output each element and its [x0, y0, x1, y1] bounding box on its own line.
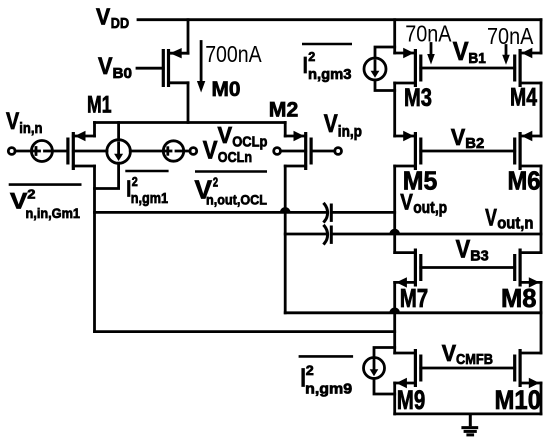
noise current source In,gm3 (circle with down arrow) — [364, 58, 386, 80]
svg-text:n,gm9: n,gm9 — [305, 381, 352, 398]
transistor M9 (NMOS mirrored) — [395, 349, 421, 388]
svg-text:2: 2 — [213, 174, 218, 189]
terminal VOCLn — [190, 148, 197, 155]
noise voltage source VOCL (circle with +/-) — [163, 141, 190, 161]
wire C1 to Vout,p — [331, 211, 394, 214]
svg-text:out,n: out,n — [497, 215, 533, 233]
svg-text:in,p: in,p — [338, 123, 362, 140]
wire M7 source stem to M9 drain — [393, 282, 396, 353]
noise label In,gm9 with overline — [299, 356, 354, 397]
wire VB0 to M0 gate — [137, 67, 163, 70]
svg-text:V: V — [203, 137, 218, 165]
svg-text:2: 2 — [27, 187, 35, 202]
svg-text:70nA: 70nA — [487, 23, 534, 49]
arrow 70nA right — [502, 46, 510, 65]
wire VB1 gate line M3-M4 — [421, 67, 515, 70]
transistor M4 (PMOS) — [515, 48, 541, 87]
node VOCLp label — [218, 122, 268, 151]
svg-text:V: V — [324, 110, 338, 138]
node VDD label — [96, 4, 129, 33]
wire M10 source stem — [540, 383, 543, 414]
wire Vout,n vertical (M6 drain to M8 drain) — [540, 166, 543, 253]
noise label In,gm3 with overline — [302, 44, 352, 83]
svg-text:M7: M7 — [400, 283, 429, 313]
svg-text:2: 2 — [308, 49, 315, 64]
wire VB3 gate line M7-M8 — [421, 266, 515, 269]
crossover hop at M2 drain — [281, 208, 290, 212]
svg-text:V: V — [442, 340, 457, 366]
wire bottom ground rail — [395, 412, 541, 415]
terminal to M2 bulk — [274, 148, 281, 155]
noise label In,gm1 with overline — [125, 171, 168, 207]
svg-text:M8: M8 — [501, 283, 537, 313]
wire VCMFB gate line M9-M10 — [421, 367, 515, 370]
wire In,gm1 bottom stem to M1 drain — [95, 163, 119, 188]
svg-text:M6: M6 — [508, 166, 541, 196]
wire compensation cap 2 left segment (M2 drain to C2) — [285, 233, 327, 236]
wire In,gm9 top stem — [374, 348, 395, 358]
terminal Vin,n — [8, 148, 15, 155]
node VB0 label — [98, 53, 132, 82]
svg-text:V: V — [96, 4, 111, 30]
svg-text:70nA: 70nA — [405, 21, 452, 47]
terminal Vin,p — [335, 148, 342, 155]
transistor M5 (PMOS mirrored) — [395, 131, 421, 170]
wire M0 drain to tail rail — [187, 83, 190, 123]
wire M9 source stem — [393, 383, 396, 414]
svg-text:out,p: out,p — [413, 199, 447, 217]
arrow 700nA current — [197, 42, 205, 93]
svg-text:B3: B3 — [470, 248, 489, 265]
noise current source In,gm1 (circle with down arrow) — [107, 140, 131, 164]
svg-text:OCLn: OCLn — [218, 149, 252, 166]
wire In,gm1 to OCL source — [130, 150, 163, 153]
transistor M7 (NMOS mirrored) — [395, 249, 421, 288]
transistor M0 (PMOS) — [163, 48, 188, 87]
svg-text:700nA: 700nA — [205, 41, 262, 67]
wire M2 drain to right folding node — [285, 311, 541, 314]
wire Vout,p vertical (M5 drain to M7 drain) — [393, 166, 396, 253]
wire VB2 gate line M5-M6 — [421, 150, 515, 153]
noise label Vn,in,Gm1 with overline — [9, 185, 82, 221]
transistor M6 (PMOS) — [515, 131, 541, 170]
svg-text:2: 2 — [306, 362, 314, 378]
wire Vin,n terminal to noise source — [15, 150, 31, 153]
wire C2 to Vout,n (net Vout,n) — [331, 233, 541, 236]
svg-text:n,out,OCL: n,out,OCL — [206, 192, 267, 208]
transistor M3 (PMOS mirrored) — [395, 48, 421, 87]
wire In,gm9 bottom stem — [374, 379, 395, 395]
svg-text:B0: B0 — [113, 65, 133, 82]
svg-text:2: 2 — [132, 174, 138, 189]
wire M1 drain to left folding node — [95, 330, 395, 333]
wire In,gm1 top stem to tail rail — [117, 123, 120, 140]
node Vin,n label — [6, 108, 43, 137]
svg-text:M3: M3 — [404, 84, 432, 112]
wire M1 drain vertical — [93, 166, 96, 332]
svg-text:OCLp: OCLp — [232, 135, 267, 151]
svg-text:n,in,Gm1: n,in,Gm1 — [26, 205, 81, 221]
wire compensation cap 1 left segment (node A to C1) — [95, 211, 328, 214]
transistor M10 (NMOS) — [515, 349, 541, 388]
node Vout,n label — [485, 204, 533, 232]
svg-text:V: V — [6, 108, 19, 135]
wire M8 source stem to M10 drain — [540, 282, 543, 353]
crossover hop at Vout,p column — [390, 230, 399, 234]
wire M3 source stem — [393, 20, 396, 53]
node Vin,p label — [324, 110, 362, 140]
svg-text:M10: M10 — [495, 385, 542, 415]
transistor M1 (PMOS) — [68, 131, 107, 170]
node VB2 label — [451, 124, 484, 152]
capacitor C1 — [324, 204, 331, 222]
svg-text:V: V — [485, 204, 497, 231]
node Vout,p label — [400, 189, 447, 216]
svg-text:M1: M1 — [87, 91, 112, 118]
wire M2 source stem — [284, 123, 287, 137]
svg-text:V: V — [453, 38, 469, 66]
wire terminal to M2 — [281, 150, 306, 153]
svg-text:V: V — [400, 189, 413, 214]
wire M0 source stem to VDD — [187, 20, 190, 54]
node VB1 label — [453, 38, 486, 67]
wire M4 drain to M6 — [540, 83, 543, 136]
node VCMFB label — [442, 340, 493, 368]
wire tail rail (M0 drain to M1/M2 sources) — [95, 121, 286, 124]
svg-text:V: V — [456, 236, 471, 264]
wire M2 drain vertical — [284, 166, 287, 313]
svg-text:V: V — [451, 124, 466, 150]
noise voltage source Vn,in,Gm1 (circle with +/-) — [31, 141, 52, 162]
svg-text:n,gm3: n,gm3 — [308, 67, 352, 83]
wire In,gm3 top stem — [375, 47, 395, 58]
noise current source In,gm9 (circle with down arrow) — [364, 358, 385, 379]
capacitor C2 — [324, 226, 331, 244]
svg-text:M9: M9 — [397, 385, 426, 415]
node VOCLn label — [203, 137, 252, 167]
arrow 70nA left — [427, 44, 435, 65]
wire noise source to M1 gate — [52, 150, 66, 153]
wire In,gm3 bottom stem — [375, 80, 395, 91]
svg-text:CMFB: CMFB — [456, 352, 493, 368]
node VB3 label — [456, 236, 489, 265]
wire VDD rail — [138, 18, 541, 21]
noise label Vn,out,OCL with overline — [195, 172, 268, 208]
svg-text:M0: M0 — [212, 77, 241, 101]
svg-text:M4: M4 — [510, 84, 537, 112]
wire M1 source stem — [93, 123, 96, 137]
transistor M2 (PMOS mirrored) — [285, 131, 335, 170]
svg-text:V: V — [218, 122, 233, 148]
transistor M8 (NMOS) — [515, 249, 541, 288]
svg-text:DD: DD — [111, 15, 129, 32]
svg-text:V: V — [98, 53, 113, 80]
ground symbol — [461, 414, 478, 435]
svg-text:in,n: in,n — [19, 120, 42, 137]
svg-text:B1: B1 — [468, 50, 486, 67]
crossover hop at M7 source column — [390, 309, 399, 313]
svg-text:n,gm1: n,gm1 — [131, 191, 168, 207]
wire M3 drain to M5 — [393, 83, 396, 136]
wire M4 source stem — [540, 20, 543, 53]
svg-text:M2: M2 — [269, 98, 299, 121]
